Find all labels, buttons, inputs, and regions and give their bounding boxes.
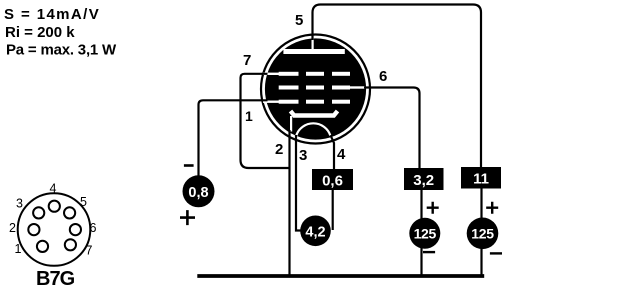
svg-text:S = 14mA/V: S = 14mA/V <box>4 6 100 23</box>
wire 125 circle to bus <box>420 248 422 275</box>
wire pin3 heater down to 4,2 <box>296 135 301 231</box>
tube U1 envelope outer circle <box>261 35 370 144</box>
anode lead to pin 5 (white, inside disc) <box>312 39 314 50</box>
meter circle Va 125 <box>467 218 499 250</box>
svg-text:2: 2 <box>275 141 283 158</box>
grid g2 lead to pin 6 (white) <box>349 86 365 88</box>
socket pin hole 7 <box>65 239 76 250</box>
tube U1 black disc <box>265 38 366 139</box>
socket pin hole 6 <box>70 224 81 235</box>
svg-text:3: 3 <box>16 197 23 211</box>
svg-text:6: 6 <box>90 221 97 235</box>
socket pin hole 2 <box>28 224 39 235</box>
grid g3 lead to pin 7 (white) <box>263 73 280 75</box>
meter circle Vg1 0,8 <box>183 175 215 207</box>
heater f arc <box>296 123 330 135</box>
svg-text:7: 7 <box>243 52 251 69</box>
cathode lead to pin 2 (white) <box>290 116 292 132</box>
wire pin4 heater down to 0,6 box <box>331 135 335 169</box>
svg-text:7: 7 <box>86 244 93 258</box>
wire 3,2 box to 125 circle <box>420 190 422 220</box>
cathode k bracket <box>291 111 338 116</box>
meter box If 0,6 <box>312 169 353 190</box>
svg-text:4,2: 4,2 <box>305 224 325 240</box>
wire pin6 to 3,2 box <box>364 88 420 169</box>
wire right 125 circle to bus <box>480 249 482 276</box>
svg-text:0,8: 0,8 <box>188 185 208 201</box>
svg-text:Ri = 200 k: Ri = 200 k <box>5 24 75 41</box>
wire pin7 to g1-bias bracket <box>241 74 268 101</box>
meter box Ig2 3,2 <box>404 168 444 190</box>
svg-text:1: 1 <box>245 108 253 124</box>
meter circle Vf 4,2 <box>300 216 331 247</box>
svg-text:Pa = max. 3,1 W: Pa = max. 3,1 W <box>6 42 117 59</box>
wire anode top loop: pin5 up, across, down to 11 box <box>313 5 482 168</box>
grid g3 row (top) dashes <box>279 72 350 76</box>
grid g2 row (middle) dashes <box>279 86 350 90</box>
svg-text:125: 125 <box>471 225 494 241</box>
socket pin hole 1 <box>37 241 48 252</box>
socket B7G outline <box>18 193 91 266</box>
svg-text:5: 5 <box>80 195 87 209</box>
ground bus line <box>197 274 484 278</box>
svg-text:5: 5 <box>295 12 303 29</box>
plus sign below 0,8 <box>180 210 195 225</box>
svg-text:11: 11 <box>473 171 489 188</box>
socket pin hole 3 <box>33 207 44 218</box>
minus sign below right 125 <box>490 252 502 254</box>
svg-text:4: 4 <box>50 182 57 196</box>
svg-text:6: 6 <box>379 68 387 85</box>
svg-text:4: 4 <box>337 146 346 163</box>
wire 0,6 box to 4,2 circle <box>332 190 334 231</box>
svg-text:125: 125 <box>414 225 437 241</box>
meter circle Vg2 125 <box>409 218 440 249</box>
svg-text:2: 2 <box>9 221 16 235</box>
socket pin hole 4 <box>49 201 60 212</box>
meter box Ia 11 <box>461 167 501 189</box>
svg-text:3: 3 <box>299 147 307 164</box>
socket pin hole 5 <box>64 207 75 218</box>
anode a plate bar <box>283 49 344 54</box>
wire 11 box to 125 circle <box>480 188 482 218</box>
minus sign below left 125 <box>423 251 435 253</box>
grid g1 row (bottom) dashes <box>279 100 350 104</box>
wire pin1 junction down and right to cathode line <box>241 100 290 168</box>
wire g1 bias horizontal to 0,8 <box>199 100 268 175</box>
svg-text:0,6: 0,6 <box>322 173 343 190</box>
grid g1 lead to pin 1 (white) <box>263 101 280 103</box>
svg-text:B7G: B7G <box>36 268 75 288</box>
plus sign above right 125 <box>486 202 498 214</box>
svg-text:1: 1 <box>15 242 22 256</box>
svg-text:3,2: 3,2 <box>413 172 434 189</box>
minus sign above 0,8 <box>184 164 194 167</box>
wire pin2 cathode down to bus <box>288 130 290 275</box>
plus sign above left 125 <box>427 202 439 214</box>
